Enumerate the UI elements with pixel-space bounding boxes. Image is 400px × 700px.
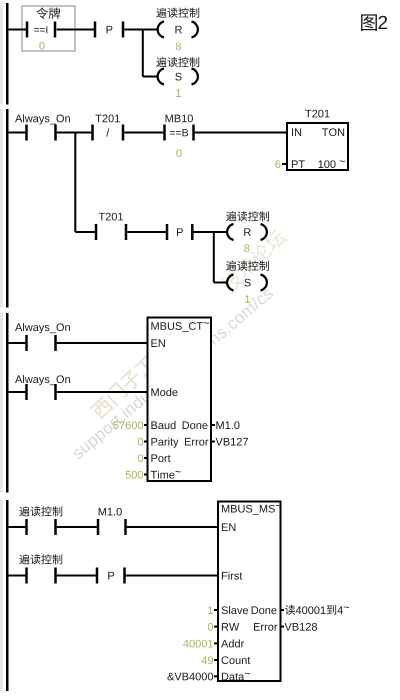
contact M1.0 xyxy=(98,519,126,535)
left power rail xyxy=(6,313,9,493)
label MB10 xyxy=(166,115,173,123)
contact Always_On N3a xyxy=(27,335,56,351)
watermark diagonal url text xyxy=(72,289,274,460)
wire to M1.0 contact xyxy=(57,526,97,528)
value 8 N2 xyxy=(244,244,249,252)
wire P to coil branch xyxy=(124,29,158,31)
network margin strip xyxy=(0,3,3,105)
output Done symbol 读40001到4~ xyxy=(281,609,285,611)
label T201 xyxy=(95,115,101,123)
compare contact ==I 令牌 xyxy=(27,22,55,38)
wire P to coils rung2 xyxy=(194,231,229,233)
wire contact to P xyxy=(57,29,95,31)
value 1 xyxy=(176,89,181,97)
output Error VB128 xyxy=(281,626,285,628)
value &VB4000 Data xyxy=(167,673,174,681)
label 遍读控制 N4a xyxy=(19,506,62,516)
network margin strip xyxy=(0,109,3,308)
timer box T201 TON xyxy=(287,110,348,170)
value 0 xyxy=(39,42,44,50)
wire branch to T201 contact rung2 xyxy=(75,231,95,233)
contact Always_On N3b xyxy=(27,384,56,400)
value 500 Time xyxy=(126,471,131,479)
value 57600 Baud xyxy=(113,421,118,429)
label 遍读控制 N4b xyxy=(19,554,62,564)
contact 遍读控制 N4a xyxy=(27,519,56,535)
value 49 Count xyxy=(202,656,208,664)
label T201 rung2 xyxy=(99,213,105,221)
label 遍读控制 (S coil) xyxy=(156,57,199,67)
value 0 Parity xyxy=(138,438,143,446)
contact T201 rung2 xyxy=(96,224,126,240)
output Done M1.0 xyxy=(211,424,215,426)
watermark diagonal CJK forum text xyxy=(90,227,288,420)
contact P rung2 xyxy=(167,224,192,240)
contact 遍读控制 N4b xyxy=(27,568,56,584)
function box MBUS_MSG xyxy=(218,502,281,682)
value 40001 Addr xyxy=(183,640,189,648)
value 0 Port xyxy=(138,454,143,462)
wire to Mode xyxy=(57,391,148,393)
label Always_On N2 xyxy=(15,115,22,123)
coil S set 遍读控制 xyxy=(158,69,198,85)
wire to First xyxy=(126,575,218,577)
value 6 PT xyxy=(275,160,280,168)
wire rail to contact N4a xyxy=(9,526,26,528)
wire branch to S coil rung2 xyxy=(214,282,228,284)
left power rail xyxy=(6,3,9,105)
value 0 MB10 xyxy=(176,149,181,157)
contact T201 NC xyxy=(93,125,124,141)
coil R reset N2 xyxy=(227,224,267,240)
wire to EN xyxy=(57,342,148,344)
label 遍读控制 (R coil) xyxy=(156,8,199,18)
value 1 N2 xyxy=(245,295,250,303)
value 1 Slave xyxy=(208,606,213,614)
label Always_On N3b xyxy=(15,375,22,383)
label M1.0 xyxy=(99,508,106,516)
wire to P contact N4b xyxy=(57,575,96,577)
label 遍读控制 R coil N2 xyxy=(226,211,269,221)
wire to MB10 contact xyxy=(124,132,163,134)
coil R reset 遍读控制 xyxy=(158,22,198,38)
branch vertical rung2 xyxy=(213,231,215,283)
wire branch to S coil xyxy=(143,76,159,78)
caption 图2 xyxy=(361,14,387,31)
function box MBUS_CTRL xyxy=(148,318,212,482)
contact P positive edge xyxy=(95,22,123,38)
network margin strip xyxy=(0,500,3,691)
wire rail to Always_On xyxy=(9,132,26,134)
wire rail to contact N3a xyxy=(9,342,26,344)
left power rail xyxy=(6,109,9,308)
branch vertical N1 xyxy=(142,29,144,77)
network margin strip xyxy=(0,313,3,493)
left power rail xyxy=(6,500,9,691)
wire to P rung2 xyxy=(127,231,167,233)
wire rail to contact N3b xyxy=(9,391,26,393)
selection box around contact xyxy=(22,6,75,51)
branch vertical N2 down to second rung xyxy=(74,132,76,233)
coil S set N2 xyxy=(227,275,267,291)
wire to EN MBUS_MSG xyxy=(127,526,218,528)
wire to T201 contact xyxy=(57,132,92,134)
value 0 RW xyxy=(208,623,213,631)
tick 6 to PT xyxy=(282,163,287,165)
label 令牌 xyxy=(36,7,60,19)
wire rail to contact xyxy=(9,29,27,31)
output Error VB127 xyxy=(211,441,215,443)
wire to TON box xyxy=(195,132,287,134)
compare contact ==B MB10 xyxy=(165,125,194,141)
label Always_On N3a xyxy=(15,323,22,331)
label 遍读控制 S coil N2 xyxy=(226,261,269,271)
wire rail to contact N4b xyxy=(9,575,26,577)
contact Always_On N2 xyxy=(27,125,56,141)
value 8 xyxy=(176,42,181,50)
contact P N4b xyxy=(97,568,125,584)
